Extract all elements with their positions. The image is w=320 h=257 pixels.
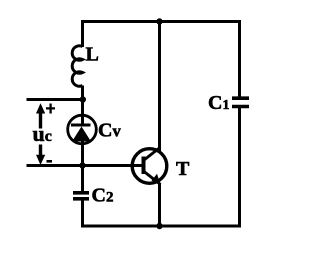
voltage arrow uc shaft lower segment: [39, 145, 42, 156]
svg-text:L: L: [86, 44, 99, 66]
label plus sign: [46, 104, 55, 114]
capacitor C2 plate bottom: [73, 197, 89, 201]
wire plus rail: [27, 98, 85, 101]
transistor T emitter diagonal: [144, 172, 161, 185]
wire emitter vertical: [158, 183, 161, 227]
node junction dot plus rail: [80, 96, 86, 102]
node junction dot emitter at bottom rail: [156, 223, 162, 229]
transistor T body circle: [132, 149, 167, 184]
wire minus rail / transistor base line: [27, 164, 144, 167]
svg-text:Cv: Cv: [98, 120, 121, 142]
varactor Cv cathode bar: [71, 124, 91, 127]
node junction dot minus rail: [79, 162, 85, 168]
transistor T base bar: [142, 157, 146, 175]
wire right branch bottom: [238, 108, 241, 228]
wire capacitor C2 bottom lead: [81, 200, 84, 228]
node junction dot collector at top rail: [156, 18, 162, 24]
wire right branch top: [238, 20, 241, 97]
voltage arrow bottom arrowhead: [36, 155, 45, 165]
svg-text:T: T: [176, 158, 190, 180]
wire bottom rail: [81, 225, 241, 228]
wire top rail: [81, 20, 241, 23]
capacitor C1 plate top: [232, 96, 249, 100]
wire inductor bottom to plus-node: [81, 86, 84, 102]
label minus sign: [47, 160, 53, 163]
wire varactor bottom lead: [81, 140, 84, 167]
transistor T emitter arrowhead: [152, 174, 161, 184]
wire left branch top (rail to inductor): [81, 20, 84, 47]
capacitor C2 plate top: [73, 191, 89, 195]
wire capacitor C2 top lead: [81, 164, 84, 192]
varactor diode Cv circle: [68, 115, 97, 144]
inductor L: [72, 46, 82, 86]
voltage arrow uc shaft upper segment: [39, 111, 42, 129]
wire varactor top lead: [81, 100, 84, 125]
voltage arrow top arrowhead: [36, 103, 45, 113]
transistor T collector diagonal: [144, 148, 160, 161]
capacitor C1 plate bottom: [232, 105, 249, 109]
wire collector vertical: [158, 20, 161, 151]
varactor Cv anode triangle: [72, 127, 91, 142]
